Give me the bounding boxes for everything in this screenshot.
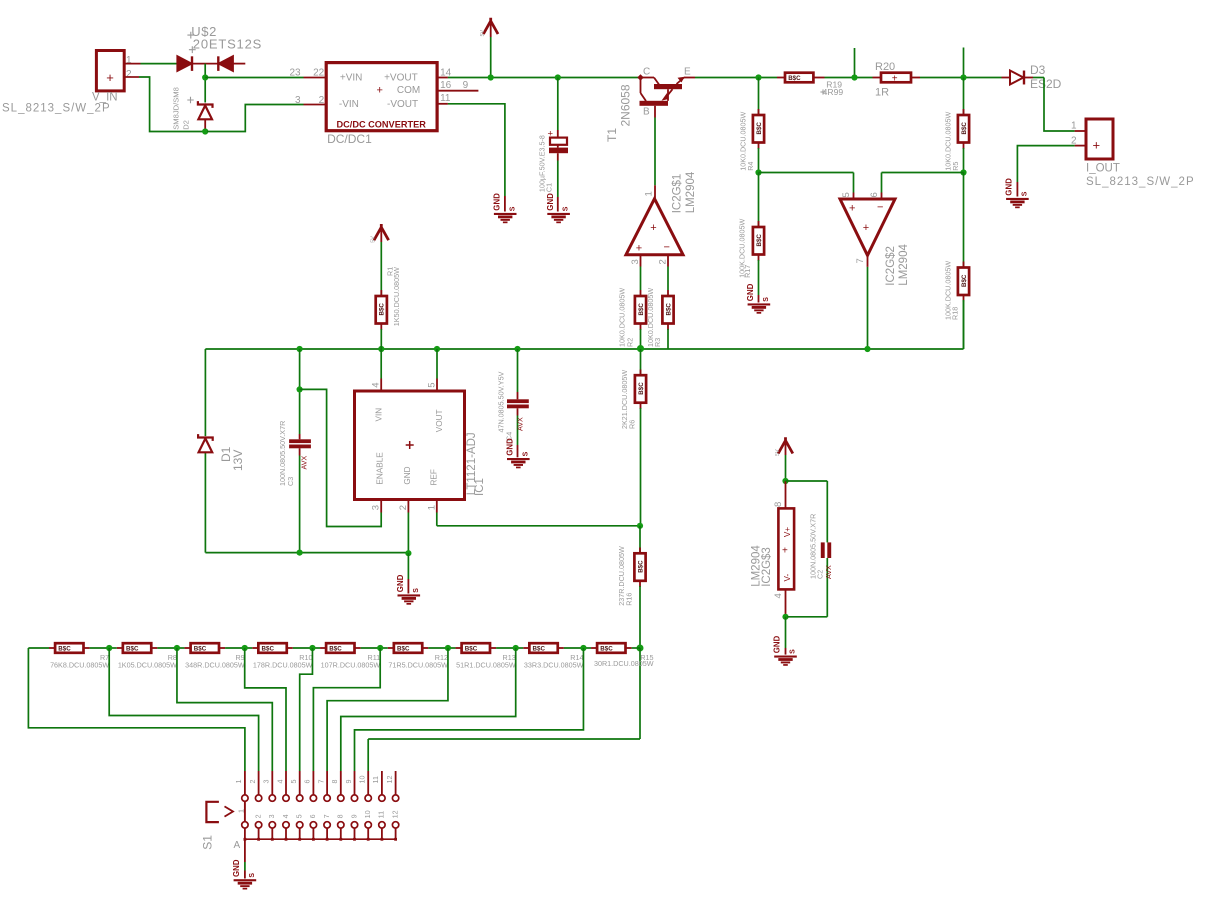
rectifier U$2 diode B — [217, 56, 219, 71]
DC/DC converter DC/DC1 body — [326, 63, 437, 131]
svg-text:10: 10 — [357, 776, 366, 784]
capacitor C2 — [821, 542, 825, 558]
svg-text:B$C: B$C — [194, 646, 207, 653]
resistor R20 lead left — [873, 77, 882, 79]
svg-text:GND: GND — [506, 438, 515, 456]
ground symbol (under -VOUT) — [494, 213, 517, 215]
svg-text:C1: C1 — [544, 183, 553, 192]
resistor R4 lead bottom — [758, 143, 760, 150]
svg-text:10: 10 — [363, 810, 372, 818]
svg-text:+: + — [849, 203, 855, 215]
header pin column 5 — [299, 771, 301, 795]
junction REF chain — [637, 523, 643, 529]
svg-text:B$C: B$C — [126, 646, 139, 653]
svg-text:76K8.DCU.0805W: 76K8.DCU.0805W — [50, 661, 109, 670]
svg-text:1K05.DCU.0805W: 1K05.DCU.0805W — [118, 661, 177, 670]
svg-text:+VOUT: +VOUT — [384, 72, 418, 83]
header col1 inter-pin link — [244, 801, 246, 821]
IC2G$3 pin8 stub — [785, 481, 787, 508]
resistor R17 branch — [758, 173, 760, 228]
svg-text:VIN: VIN — [375, 408, 384, 422]
header pin column 6 — [312, 771, 314, 795]
stub net up (left of R20) — [854, 48, 856, 78]
ground symbol (header) — [234, 879, 257, 881]
svg-text:REF: REF — [430, 469, 439, 485]
origin cross D2 — [187, 97, 193, 103]
svg-text:S: S — [413, 588, 420, 593]
svg-text:B$C: B$C — [397, 646, 410, 653]
capacitor C3 branch top — [299, 349, 301, 434]
op-amp IC2G$1 LM2904 (triangle up) — [626, 199, 683, 255]
DC/DC pin stub +VIN (23/22) — [304, 77, 327, 79]
resistor R19 — [785, 73, 813, 83]
zener diode D2 — [198, 101, 213, 108]
origin cross U$2 gate B — [189, 46, 196, 53]
svg-text:9: 9 — [463, 80, 469, 91]
R9 wire to next — [245, 647, 253, 649]
stub net up (right of R20) — [963, 48, 965, 78]
svg-text:3: 3 — [295, 95, 301, 106]
R11 wire to next — [380, 647, 388, 649]
svg-text:V-: V- — [783, 573, 792, 581]
ladder left wire — [28, 647, 49, 649]
junction ladder 2 — [174, 645, 180, 651]
left loop wires — [204, 349, 206, 436]
wire D2 to junction — [204, 130, 206, 132]
R9 leads — [219, 647, 225, 649]
ground symbol (under IC2G$3) — [774, 656, 797, 658]
svg-text:2: 2 — [657, 259, 668, 264]
svg-text:B$C: B$C — [638, 382, 645, 395]
svg-text:DC/DC1: DC/DC1 — [327, 132, 372, 146]
svg-text:13V: 13V — [231, 450, 245, 471]
svg-text:GND: GND — [773, 635, 782, 653]
junction top rail left — [202, 74, 208, 80]
svg-text:+: + — [863, 222, 869, 234]
main bus wire — [205, 348, 963, 350]
svg-text:1: 1 — [426, 505, 437, 510]
R12 leads — [422, 647, 428, 649]
svg-text:1: 1 — [1071, 121, 1077, 132]
chain wire R6 top — [640, 349, 642, 375]
svg-text:R16: R16 — [625, 593, 634, 606]
junction bus opamp2 pin7 — [864, 346, 870, 352]
svg-text:4: 4 — [370, 383, 381, 388]
power block IC2G$3 LM2904 body — [778, 508, 794, 589]
junction ladder 1 — [106, 645, 112, 651]
capacitor C2 loop bottom — [826, 558, 828, 617]
svg-text:GND: GND — [746, 283, 755, 301]
svg-text:T1: T1 — [605, 128, 619, 142]
wire D3 to OUT.1 — [1033, 77, 1044, 79]
svg-text:33R3.DCU.0805W: 33R3.DCU.0805W — [524, 661, 584, 670]
lead D2 bottom — [204, 120, 206, 130]
origin cross U$2 gate A — [187, 32, 194, 39]
svg-text:SL_8213_S/W_2P: SL_8213_S/W_2P — [2, 102, 111, 114]
junction V+ C2 — [782, 478, 788, 484]
svg-text:S: S — [249, 873, 256, 878]
wire J4 to header col5 — [300, 648, 313, 771]
junction ladder 4 — [309, 645, 315, 651]
svg-text:1K50.DCU.0805W: 1K50.DCU.0805W — [392, 267, 401, 326]
svg-text:B$C: B$C — [637, 560, 644, 573]
svg-text:5V: 5V — [480, 30, 486, 37]
svg-text:100N.0805.50V.X7R: 100N.0805.50V.X7R — [809, 514, 818, 579]
wire J5 to header col6 — [313, 648, 380, 771]
zener diode D1 13V — [198, 434, 213, 441]
svg-text:−: − — [877, 202, 883, 214]
resistor R4 — [753, 115, 764, 143]
IC1 pin3 stub — [380, 500, 382, 513]
svg-text:COM: COM — [397, 85, 420, 96]
R10 wire to next — [312, 647, 320, 649]
T1 base wire — [654, 106, 656, 118]
IC2G$3 supply wire — [785, 444, 787, 456]
capacitor C2 loop top — [786, 480, 828, 482]
IC2G$3 pin4 stub — [785, 589, 787, 616]
svg-text:1: 1 — [234, 780, 243, 784]
resistor R18 branch — [963, 173, 965, 268]
capacitor C4 bottom wire — [517, 408, 519, 415]
svg-text:5V: 5V — [371, 236, 377, 243]
IC IC1 LT1121-ADJ body — [355, 391, 465, 500]
junction ladder 8 — [580, 645, 586, 651]
svg-text:IC2G$1: IC2G$1 — [672, 174, 684, 214]
svg-text:3: 3 — [370, 505, 381, 510]
R17 gnd lead — [758, 295, 760, 303]
IC1 pin1 REF wire — [436, 500, 438, 513]
header pin column 4 — [285, 771, 287, 795]
svg-text:23: 23 — [289, 67, 301, 78]
rectifier U$2 diode A — [177, 56, 191, 71]
svg-text:AVX: AVX — [824, 565, 833, 579]
capacitor C1 branch wire — [557, 78, 559, 131]
junction R5 bottom — [960, 169, 966, 175]
resistor R3 lead bottom — [667, 324, 669, 331]
svg-text:51R1.DCU.0805W: 51R1.DCU.0805W — [456, 661, 516, 670]
D3 lead left — [1002, 77, 1011, 79]
resistor R18 — [958, 268, 969, 296]
wire +VOUT rail to T1 — [448, 77, 639, 79]
R1 top wire — [380, 230, 382, 242]
svg-text:B$C: B$C — [262, 646, 275, 653]
resistor R17 lead bottom — [758, 255, 760, 262]
connector X2 I_OUT SL_8213_S/W_2P — [1086, 119, 1113, 159]
capacitor C4 branch — [517, 349, 519, 392]
ground symbol (under OUT.2) — [1006, 198, 1029, 200]
resistor R9 — [191, 643, 219, 653]
junction bus chain — [637, 345, 644, 352]
wire V- to gnd — [785, 617, 787, 648]
svg-text:S: S — [509, 206, 516, 211]
junction C3/ENABLE — [297, 386, 303, 392]
svg-text:DC/DC CONVERTER: DC/DC CONVERTER — [337, 119, 427, 129]
svg-text:2: 2 — [253, 814, 262, 818]
svg-text:LM2904: LM2904 — [898, 244, 910, 286]
svg-text:A: A — [234, 840, 241, 851]
junction ladder 5 — [377, 645, 383, 651]
svg-text:LM2904: LM2904 — [685, 171, 697, 213]
svg-text:VOUT: VOUT — [435, 409, 444, 432]
svg-text:2: 2 — [398, 505, 409, 510]
svg-text:B$C: B$C — [533, 646, 546, 653]
svg-text:−: − — [664, 242, 670, 254]
svg-text:5: 5 — [426, 383, 437, 388]
svg-text:2: 2 — [319, 95, 325, 106]
resistor R15 — [597, 643, 625, 653]
svg-text:S1: S1 — [200, 835, 214, 850]
svg-text:9: 9 — [344, 780, 353, 784]
connector X1 V_IN SL_8213_S/W_2P — [96, 51, 124, 91]
R14 wire to next — [583, 647, 591, 649]
svg-text:8: 8 — [330, 780, 339, 784]
resistor R14 — [529, 643, 557, 653]
header pin column 11 — [381, 771, 383, 795]
svg-text:GND: GND — [232, 859, 241, 877]
wire J2 to header col3 — [177, 648, 272, 771]
header pin column 7 — [326, 771, 328, 795]
svg-text:5: 5 — [289, 780, 298, 784]
svg-text:B$C: B$C — [756, 122, 763, 135]
resistor R5 branch — [963, 78, 965, 116]
svg-text:B$C: B$C — [465, 646, 478, 653]
svg-text:+: + — [782, 546, 788, 557]
svg-text:5V: 5V — [775, 449, 781, 456]
svg-text:+: + — [892, 73, 898, 84]
header pin column 8 — [340, 771, 342, 795]
svg-text:C: C — [643, 66, 650, 77]
junction bottom bus C3 — [297, 550, 303, 556]
ground symbol (under R17) — [748, 303, 771, 305]
svg-text:B$C: B$C — [58, 646, 71, 653]
svg-text:S: S — [763, 297, 770, 302]
capacitor C3 bottom wire — [299, 448, 301, 455]
svg-text:7: 7 — [322, 814, 331, 818]
svg-text:B$C: B$C — [756, 234, 763, 247]
svg-text:12: 12 — [385, 776, 394, 784]
junction ladder 3 — [242, 645, 248, 651]
svg-text:1: 1 — [643, 191, 654, 196]
junction ladder 6 — [445, 645, 451, 651]
svg-text:B: B — [643, 107, 650, 118]
svg-text:3: 3 — [267, 814, 276, 818]
junction rail at R5 — [960, 74, 966, 80]
capacitor C4 — [507, 399, 529, 403]
svg-text:107R.DCU.0805W: 107R.DCU.0805W — [321, 661, 381, 670]
svg-text:GND: GND — [403, 466, 412, 484]
chain wire to c10 — [639, 648, 641, 739]
resistor R8 — [123, 643, 151, 653]
resistor R20 lead right — [911, 77, 920, 79]
svg-text:2: 2 — [126, 69, 132, 80]
svg-text:47N.0805.50V.Y5V: 47N.0805.50V.Y5V — [497, 371, 506, 432]
svg-text:178R.DCU.0805W: 178R.DCU.0805W — [253, 661, 313, 670]
header pin column 2 — [258, 771, 260, 795]
svg-text:IC2G$2: IC2G$2 — [885, 246, 897, 286]
svg-text:GND: GND — [492, 193, 501, 211]
svg-text:2N6058: 2N6058 — [618, 84, 632, 126]
resistor R13 — [462, 643, 490, 653]
svg-text:1R: 1R — [875, 87, 889, 99]
svg-text:3: 3 — [630, 259, 641, 264]
wire R5j to opamp2 pin6 — [882, 172, 964, 174]
wire ENABLE route — [300, 389, 382, 526]
svg-text:S: S — [1022, 191, 1029, 196]
resistor R5 — [958, 115, 969, 143]
svg-text:B$C: B$C — [379, 303, 386, 316]
junction rail at stub1 — [851, 74, 857, 80]
svg-text:SL_8213_S/W_2P: SL_8213_S/W_2P — [1086, 176, 1195, 188]
R11 leads — [355, 647, 361, 649]
IC1 pin5 wire — [436, 349, 438, 379]
svg-text:D2: D2 — [182, 120, 191, 130]
svg-text:+: + — [377, 85, 383, 97]
svg-text:R3: R3 — [653, 338, 662, 347]
wire J6 to header col7 — [327, 648, 448, 771]
IC1 pin2 wire — [407, 500, 409, 513]
wire OUT.2 to GND — [1017, 146, 1074, 182]
svg-text:4: 4 — [281, 814, 290, 818]
svg-text:11: 11 — [440, 93, 451, 104]
svg-text:8: 8 — [773, 502, 784, 507]
svg-text:R2: R2 — [626, 338, 635, 347]
resistor R19 lead right — [813, 77, 824, 79]
svg-text:R6: R6 — [628, 420, 637, 429]
svg-text:ENABLE: ENABLE — [375, 452, 384, 485]
svg-text:5: 5 — [294, 814, 303, 818]
svg-text:2: 2 — [248, 780, 257, 784]
junction D2 bottom — [202, 128, 208, 134]
svg-text:B$C: B$C — [961, 122, 968, 135]
supply arrow 5V (IC2G$3) — [778, 437, 793, 453]
svg-text:B$C: B$C — [961, 274, 968, 287]
junction bus C3 — [297, 346, 303, 352]
svg-text:B$C: B$C — [788, 75, 801, 82]
junction bus IC1.5 — [434, 346, 440, 352]
supply arrow 5V (top) — [483, 18, 498, 34]
resistor R16 — [634, 553, 645, 581]
wire R4j to opamp2 pin5 — [759, 172, 854, 174]
svg-text:7: 7 — [855, 258, 866, 263]
svg-text:16: 16 — [440, 80, 452, 91]
svg-text:SM8JD/SM8: SM8JD/SM8 — [172, 87, 181, 130]
svg-text:AVX: AVX — [515, 417, 524, 431]
ground symbol (under C4) — [507, 458, 530, 460]
pin stub V_IN.1 — [124, 63, 140, 65]
svg-text:20ETS12S: 20ETS12S — [193, 37, 262, 52]
svg-text:-VIN: -VIN — [339, 99, 359, 110]
junction ladder right — [637, 645, 644, 652]
svg-text:GND: GND — [396, 574, 405, 592]
resistor R3 — [662, 296, 673, 324]
DC/DC pin stub -VIN (3/2) — [304, 104, 327, 106]
op-amp IC2G$2 LM2904 (triangle down) — [840, 199, 895, 255]
resistor R2 lead bottom — [640, 324, 642, 331]
header pin column 1 — [244, 771, 246, 795]
wire D2 to -VIN — [207, 105, 304, 132]
resistor R11 — [326, 643, 354, 653]
svg-text:IC2G$3: IC2G$3 — [761, 547, 773, 587]
svg-text:B$C: B$C — [329, 646, 342, 653]
svg-text:4R99: 4R99 — [823, 87, 844, 97]
supply arrow 5V (R1) — [374, 224, 389, 240]
svg-text:C3: C3 — [286, 477, 295, 486]
wire -VOUT to GND — [448, 104, 505, 196]
R13 wire to next — [516, 647, 524, 649]
resistor R18 lead bottom — [963, 295, 965, 302]
U$2 right stub — [233, 63, 245, 65]
svg-text:R17: R17 — [743, 265, 752, 278]
junction rail at supply — [488, 74, 494, 80]
R13 leads — [490, 647, 496, 649]
header A bus to gnd — [244, 839, 246, 862]
svg-text:11: 11 — [371, 776, 380, 783]
svg-text:11: 11 — [377, 811, 386, 818]
svg-text:8: 8 — [336, 814, 345, 818]
D3 lead right — [1024, 77, 1033, 79]
U$2 inter-diode link — [192, 63, 218, 65]
wire V_IN.1 to U$2 — [141, 63, 178, 65]
T1 emitter stub — [684, 77, 695, 79]
transistor T1 2N6058 — [637, 74, 644, 81]
svg-text:348R.DCU.0805W: 348R.DCU.0805W — [185, 661, 245, 670]
pin stub V_IN.2 — [124, 76, 139, 78]
svg-text:E: E — [684, 66, 691, 77]
R12 wire to next — [448, 647, 456, 649]
svg-text:22: 22 — [313, 67, 325, 78]
IC1 pin4 wire — [380, 349, 382, 379]
ground symbol (under IC1) — [398, 594, 421, 596]
svg-text:71R5.DCU.0805W: 71R5.DCU.0805W — [388, 661, 448, 670]
capacitor C3 — [289, 439, 311, 443]
svg-text:D3: D3 — [1030, 63, 1046, 77]
svg-text:R20: R20 — [875, 61, 895, 73]
svg-text:R4: R4 — [746, 162, 755, 171]
header A bus — [245, 838, 396, 840]
IC2G$1 pin2 wire — [667, 255, 669, 267]
DC/DC pin stub COM (16/9) — [437, 90, 478, 92]
R7 leads — [84, 647, 90, 649]
svg-text:S: S — [522, 451, 529, 456]
svg-text:12: 12 — [390, 810, 399, 818]
ground symbol (under C1) — [547, 213, 570, 215]
IC2G$1 pin3 wire — [640, 255, 642, 267]
junction GND bus — [405, 550, 411, 556]
svg-text:+VIN: +VIN — [340, 72, 363, 83]
svg-text:5: 5 — [841, 192, 852, 197]
svg-text:ES2D: ES2D — [1030, 77, 1062, 91]
junction bus C4 — [514, 346, 520, 352]
resistor R12 — [394, 643, 422, 653]
junction ladder 7 — [513, 645, 519, 651]
wire rail T1.E to D3 — [695, 77, 777, 79]
svg-text:7: 7 — [316, 780, 325, 784]
svg-text:4: 4 — [275, 780, 284, 784]
svg-text:IC1: IC1 — [474, 478, 486, 496]
junction rail at R4 — [755, 74, 761, 80]
svg-text:+: + — [106, 70, 114, 85]
DC/DC pin stub +VOUT (14) — [437, 77, 448, 79]
resistor R2 — [635, 296, 646, 324]
IC2G$2 pin7 wire — [867, 255, 869, 267]
svg-text:V+: V+ — [783, 527, 792, 537]
junction V- C2 — [782, 614, 788, 620]
wire center tap down — [204, 64, 206, 103]
pin stub OUT.1 — [1075, 130, 1086, 132]
R14 leads — [558, 647, 564, 649]
resistor R4 branch — [758, 78, 760, 116]
resistor R7 — [55, 643, 83, 653]
